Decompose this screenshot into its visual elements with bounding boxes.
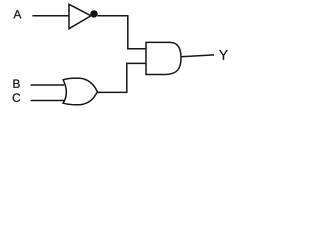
node Y label — [219, 50, 228, 60]
wire C input — [31, 100, 66, 102]
node A label — [13, 10, 21, 18]
wire AND output to Y — [181, 55, 214, 57]
wire B input — [31, 84, 65, 86]
AND gate G2 — [146, 42, 181, 74]
junction dot at inverter output — [90, 10, 97, 17]
inverter U1 triangle — [69, 4, 91, 28]
wire OR output to AND bottom input — [97, 63, 146, 92]
OR gate G1 — [63, 78, 97, 105]
wire inverter output to AND top input — [98, 16, 147, 49]
wire A input — [32, 15, 69, 17]
node B label — [13, 80, 19, 88]
node C label — [13, 93, 21, 101]
